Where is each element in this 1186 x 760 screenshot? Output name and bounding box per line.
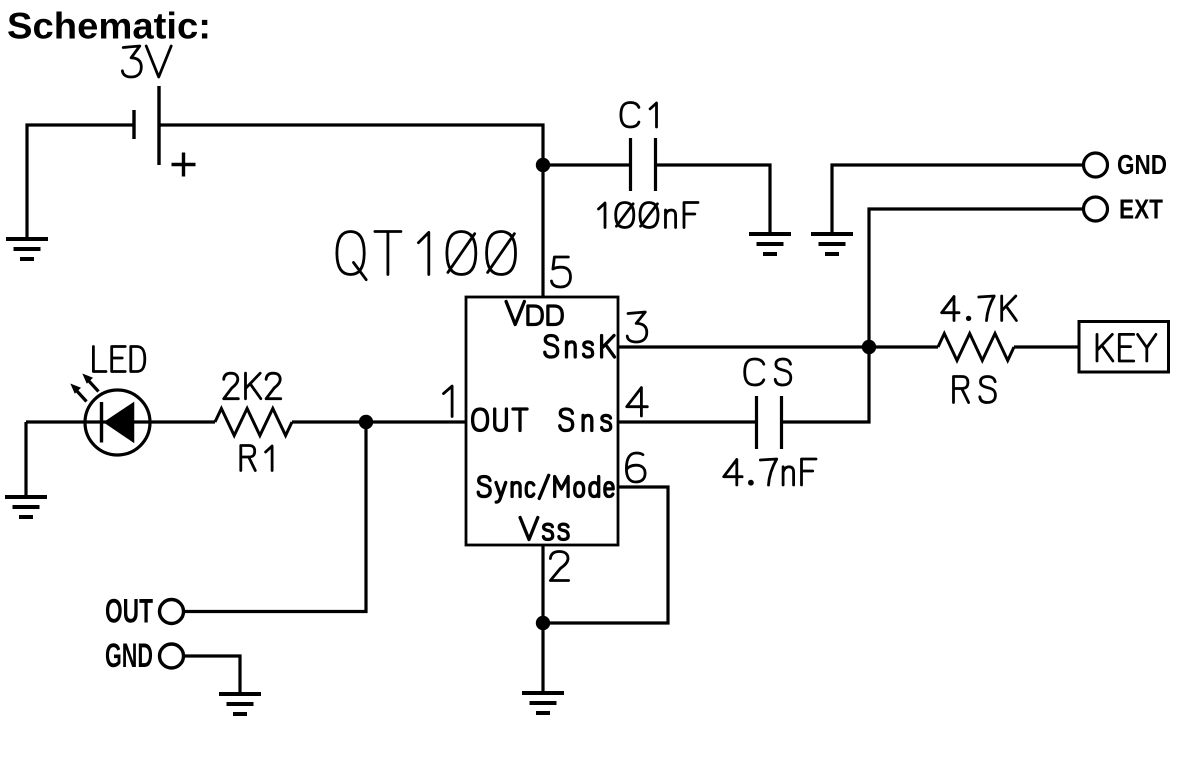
capacitor CS (757, 396, 782, 449)
wire pin 3 SnsK to node (618, 345, 869, 348)
wire Vss node to ground (541, 623, 544, 693)
pin number 1 (444, 386, 453, 416)
pin name Vss (520, 518, 568, 540)
pin number 4 (627, 388, 648, 416)
pin name OUT (473, 409, 527, 431)
wire GND terminal to ground (832, 165, 1083, 234)
junction Vss node (536, 616, 550, 630)
label 100nF (599, 203, 699, 228)
label QT100 (337, 232, 516, 280)
label R1 (241, 446, 272, 471)
wire VDD node to pin 5 (541, 165, 544, 297)
capacitor C1 (631, 138, 656, 191)
LED D1 cathode bar (100, 402, 103, 443)
ground (bottom left port) (219, 694, 261, 714)
pin name Sync/Mode (478, 475, 613, 502)
LED light arrow 2 (82, 374, 98, 392)
wire pin 4 Sns to CS (618, 420, 757, 423)
label 2K2 (224, 373, 281, 399)
LED D1 triangle (105, 403, 134, 442)
svg-text:GND: GND (1117, 149, 1167, 180)
wire CS to SnsK node (782, 347, 870, 422)
terminal GND (bottom left) (160, 644, 184, 668)
KEY electrode box (1079, 322, 1169, 373)
pin number 6 (626, 453, 645, 482)
battery BT1 3V (134, 86, 159, 165)
wire battery negative to ground (27, 125, 134, 239)
label KEY (1097, 334, 1156, 361)
wire pin 2 Vss down (541, 545, 544, 623)
ground (battery) (6, 239, 48, 259)
svg-text:GND: GND (105, 637, 153, 675)
junction SnsK node (862, 340, 876, 354)
svg-text:Schematic:: Schematic: (7, 6, 211, 47)
ground (C1) (749, 234, 791, 254)
junction OUT node (359, 415, 373, 429)
label CS (745, 359, 791, 385)
wire C1 to ground (656, 165, 771, 234)
ground (LED) (5, 497, 47, 517)
wire RS to KEY (1014, 345, 1079, 348)
wire pin 6 Sync/Mode loop (543, 487, 668, 623)
wire battery positive to VDD node (159, 125, 543, 165)
pin number 5 (552, 257, 571, 287)
pin name VDD (506, 302, 562, 325)
pin number 2 (550, 552, 568, 581)
pin number 3 (627, 312, 647, 342)
wire R1 to pin 1 (292, 420, 466, 423)
label OUT (terminal) (105, 593, 153, 631)
IC U1 QT100 body (466, 297, 618, 545)
ground (Vss) (522, 693, 564, 713)
wire VDD node to C1 (543, 163, 631, 166)
label RS (954, 377, 996, 403)
wire EXT to SnsK node (869, 209, 1083, 347)
wire SnsK node to RS (869, 345, 938, 348)
terminal OUT (160, 600, 184, 624)
pin name SnsK (545, 336, 615, 358)
label 3V (122, 46, 171, 77)
label C1 (621, 103, 657, 128)
title "Schematic:" (7, 6, 211, 47)
svg-text:EXT: EXT (1119, 194, 1163, 225)
label GND (bottom left) (105, 637, 153, 675)
LED light arrow 1 (70, 384, 86, 402)
pin name Sns (560, 409, 611, 431)
battery plus sign (172, 153, 196, 177)
label LED (93, 347, 144, 372)
label GND (terminal) (1117, 149, 1167, 180)
ground (GND terminal) (811, 234, 853, 254)
svg-text:OUT: OUT (105, 593, 153, 631)
label 4.7nF (724, 459, 816, 486)
junction VDD node (536, 158, 550, 172)
resistor R1 (215, 409, 292, 436)
label EXT (terminal) (1119, 194, 1163, 225)
resistor RS (938, 334, 1014, 361)
label 4.7K (942, 296, 1017, 321)
wire GND terminal to ground (bottom left) (184, 656, 240, 694)
wire LED through R1 to OUT node (26, 420, 215, 423)
wire OUT node to OUT terminal (184, 422, 366, 612)
terminal EXT (1084, 197, 1108, 221)
terminal GND (1084, 153, 1108, 177)
LED D1 circle (85, 390, 150, 455)
wire LED anode to ground (24, 422, 27, 497)
